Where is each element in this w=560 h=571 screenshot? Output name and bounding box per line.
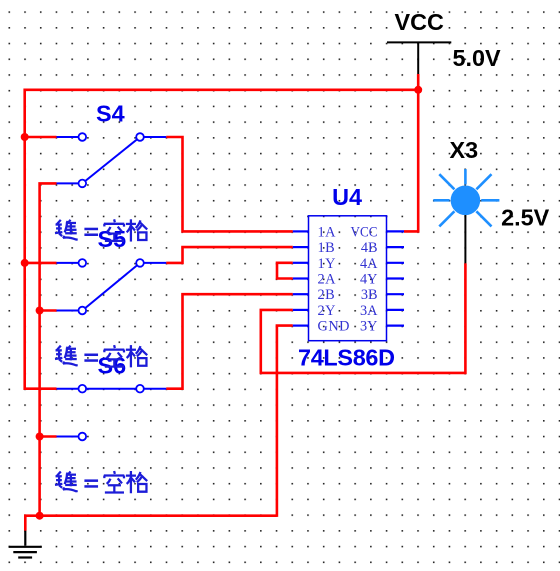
svg-text:VCC: VCC — [351, 224, 378, 240]
svg-text:2Y: 2Y — [318, 303, 336, 319]
wire S5 top throw lead — [25, 262, 57, 265]
svg-text:4Y: 4Y — [360, 272, 377, 288]
junction VCC node — [414, 86, 422, 94]
svg-text:5.0V: 5.0V — [453, 45, 502, 71]
wire rail B (GND rail) from S4 bottom throw — [40, 183, 57, 515]
wire 1Y to 2A bracket — [277, 263, 293, 279]
svg-text:1A: 1A — [318, 224, 337, 240]
svg-text:4A: 4A — [360, 256, 378, 272]
svg-text:3Y: 3Y — [360, 319, 377, 335]
wire S4 pole to U4 pin 1A — [166, 137, 293, 231]
probe X3 lamp body — [451, 186, 481, 216]
chip U4 pins left stubs — [293, 231, 309, 325]
svg-text:2A: 2A — [318, 272, 337, 288]
ground symbol — [9, 531, 42, 558]
chip U4 body 74LS86D — [309, 216, 387, 341]
junction rail B / S6 — [36, 433, 44, 441]
wire rail A (VCC rail) down to S6 top throw — [25, 89, 57, 389]
switch S4 — [57, 137, 167, 183]
label key=space S6 — [55, 471, 147, 493]
svg-text:3B: 3B — [361, 287, 378, 303]
svg-text:2.5V: 2.5V — [501, 205, 550, 231]
label key=space S4 — [55, 219, 147, 241]
svg-text:U4: U4 — [332, 184, 362, 210]
svg-text:1B: 1B — [318, 240, 336, 256]
wire S5 bottom throw lead — [40, 309, 57, 312]
svg-text:S4: S4 — [96, 101, 125, 127]
junction rail B / bottom run — [36, 512, 44, 520]
svg-text:X3: X3 — [450, 137, 479, 163]
wire VCC source down to U4 pin VCC — [404, 74, 418, 231]
junction rail B / S5 — [36, 307, 44, 315]
wire S5 pole to U4 pin 1B — [166, 247, 293, 263]
wire bottom ground run — [25, 516, 277, 531]
power VCC symbol — [387, 42, 451, 74]
wire 2Y to probe X3 — [261, 263, 466, 373]
junction rail A / S4 — [21, 133, 29, 141]
wire S6 pole to U4 pin 2B — [166, 294, 293, 389]
wire U4 GND pin to bottom run — [277, 326, 293, 517]
label key=space S5 — [55, 345, 147, 367]
wire VCC top rail — [25, 89, 419, 92]
probe X3 lead — [464, 215, 466, 263]
svg-text:3A: 3A — [360, 303, 378, 319]
svg-text:GND: GND — [318, 319, 350, 335]
probe X3 rays — [433, 169, 499, 226]
wire S6 bottom throw lead — [40, 435, 57, 438]
svg-text:4B: 4B — [361, 240, 378, 256]
junction rail A / S5 — [21, 259, 29, 267]
svg-text:2B: 2B — [318, 287, 336, 303]
svg-text:VCC: VCC — [395, 9, 444, 35]
chip U4 pins right stubs — [387, 231, 405, 325]
svg-text:74LS86D: 74LS86D — [298, 345, 395, 371]
svg-text:1Y: 1Y — [318, 256, 336, 272]
switch S6 — [57, 389, 167, 437]
switch S5 — [57, 263, 167, 311]
wire S4 top throw lead — [25, 136, 57, 139]
